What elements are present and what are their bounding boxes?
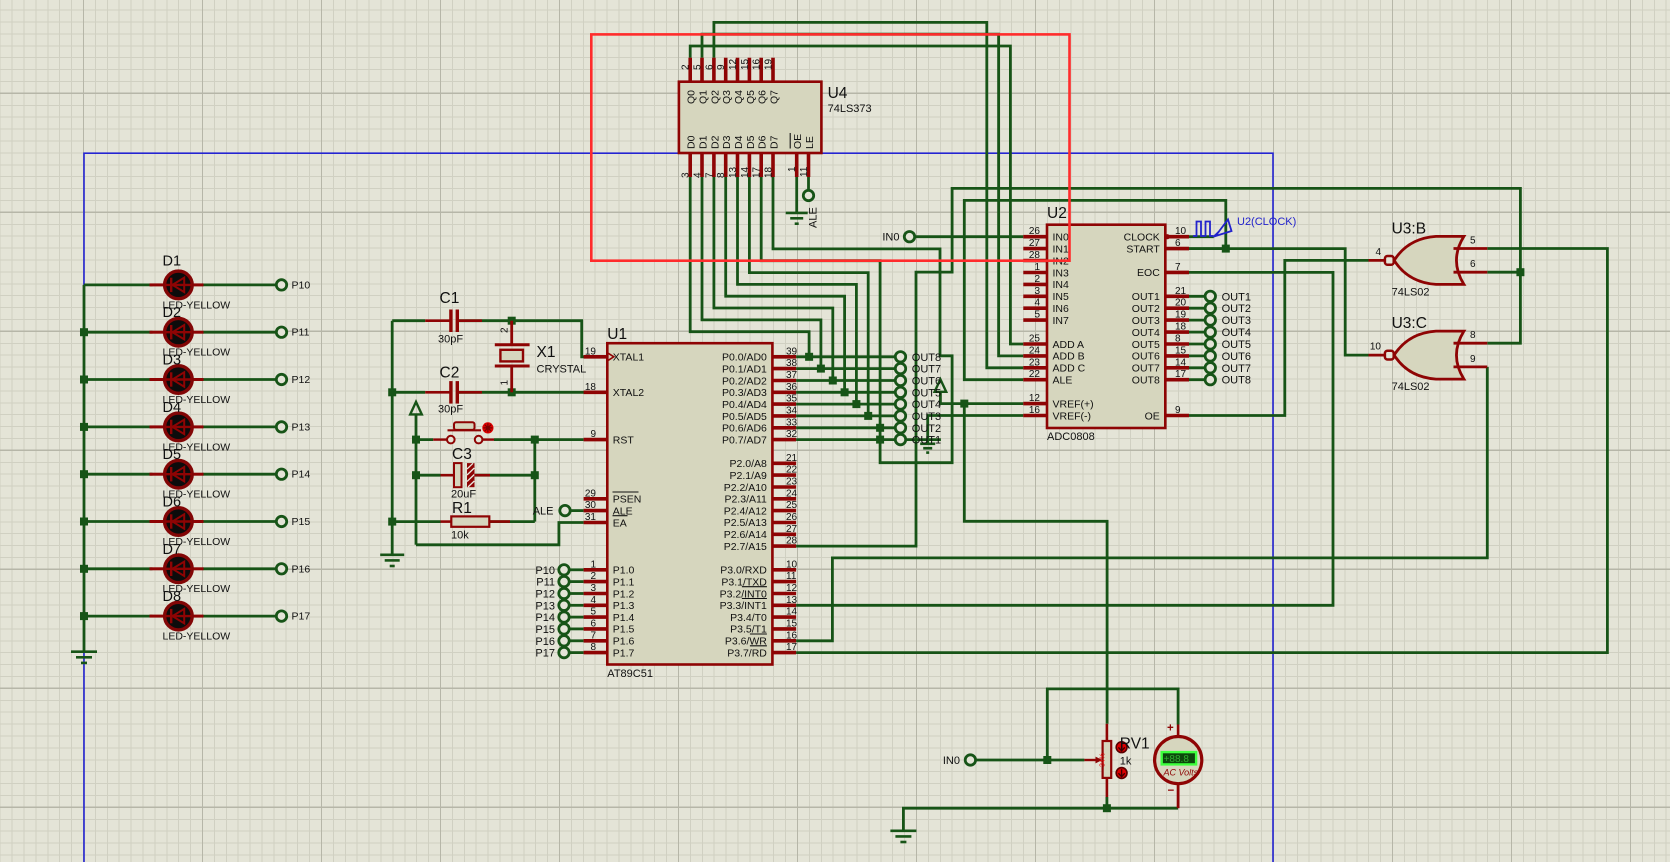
wire LED D7 left wire — [84, 567, 153, 570]
node ALE near U1 terminal — [560, 505, 570, 515]
pin 21 U2 OUT1 stub — [1165, 294, 1189, 298]
pin 27 U2 IN1 stub — [1023, 247, 1047, 251]
node P10 near U1 terminal — [559, 565, 569, 575]
capacitor C3 (20uF electrolytic) — [441, 463, 491, 487]
svg-text:23: 23 — [1029, 357, 1041, 368]
pin 13 U4 D4 stub — [736, 153, 740, 177]
pin 10 U3:C output stub — [1369, 354, 1385, 357]
svg-text:P2.0/A8: P2.0/A8 — [730, 458, 768, 470]
wire R1 left — [392, 520, 440, 523]
svg-text:+88.8: +88.8 — [1164, 754, 1190, 765]
LED D8 (LED-YELLOW) — [150, 602, 204, 630]
wire P3.7/RD to U3:B pin5 — [796, 249, 1607, 653]
pin 12 U1 P3.2/INT0 stub — [772, 592, 796, 596]
svg-text:P0.7/AD7: P0.7/AD7 — [722, 434, 767, 446]
svg-text:2: 2 — [500, 327, 511, 333]
svg-text:OUT7: OUT7 — [1132, 363, 1160, 375]
svg-text:P0.2/AD2: P0.2/AD2 — [722, 375, 767, 387]
wire LED D3 to terminal P12 — [203, 378, 278, 381]
svg-text:D6: D6 — [757, 135, 769, 149]
svg-text:P2.5/A13: P2.5/A13 — [724, 517, 767, 529]
svg-text:+: + — [1167, 723, 1174, 735]
svg-text:P12: P12 — [292, 374, 311, 386]
svg-text:8: 8 — [1470, 330, 1476, 341]
junction LED bus row D7 — [80, 565, 88, 573]
pin 10 U1 P3.0/RXD stub — [772, 568, 796, 572]
svg-text:AT89C51: AT89C51 — [607, 668, 653, 680]
junction D0 join P0.0 — [805, 353, 813, 361]
svg-text:C3: C3 — [452, 446, 472, 463]
wire LED cathode bus vertical — [83, 285, 86, 652]
wire U2 OUT2 to terminal — [1189, 307, 1205, 310]
svg-text:−: − — [1168, 785, 1175, 797]
junction LED bus row D8 — [80, 612, 88, 620]
wire CLOCK pin to probe — [1189, 235, 1214, 238]
svg-text:2: 2 — [681, 64, 692, 70]
svg-text:OUT8: OUT8 — [1132, 375, 1160, 387]
svg-text:D0: D0 — [686, 135, 698, 149]
svg-text:28: 28 — [1029, 250, 1041, 261]
red selection rectangle — [591, 34, 1069, 260]
svg-text:3: 3 — [681, 172, 692, 178]
blue border rectangle — [84, 153, 1273, 862]
wire R1 right — [489, 520, 535, 523]
NOR gate U3:C (74LS02) body — [1394, 331, 1464, 379]
svg-text:20uF: 20uF — [451, 489, 476, 501]
svg-text:17: 17 — [786, 642, 798, 653]
pin 5 U2 IN7 stub — [1023, 318, 1047, 322]
svg-text:OUT3: OUT3 — [1132, 315, 1160, 327]
svg-text:3: 3 — [590, 583, 596, 594]
svg-text:P14: P14 — [535, 612, 555, 624]
wire to U3:B pin 6 — [1487, 271, 1520, 274]
node OUT1 near U1 terminal — [895, 434, 905, 444]
svg-text:32: 32 — [786, 429, 798, 440]
capacitor C1 — [425, 310, 482, 333]
node OUT8 near U1 terminal — [895, 352, 905, 362]
pin 15 U1 P3.5/T1 stub — [772, 627, 796, 631]
svg-text:26: 26 — [1029, 226, 1041, 237]
pin 24 U1 P2.3/A11 stub — [772, 497, 796, 501]
pin 15 U4 Q5 stub — [748, 58, 752, 82]
wire RST node vertical — [533, 440, 536, 522]
svg-text:18: 18 — [1175, 322, 1187, 333]
svg-text:U4: U4 — [828, 85, 848, 102]
svg-text:22: 22 — [786, 465, 798, 476]
pin 17 U1 P3.7/RD stub — [772, 651, 796, 655]
pin 8 U4 D3 stub — [724, 153, 728, 177]
svg-text:2: 2 — [590, 571, 596, 582]
svg-text:24: 24 — [1029, 345, 1041, 356]
wire U4 Q0 to ADD A — [690, 46, 1023, 344]
svg-text:6: 6 — [590, 618, 596, 629]
svg-text:U3:B: U3:B — [1392, 220, 1426, 237]
svg-text:ADD B: ADD B — [1053, 351, 1085, 363]
svg-text:X1: X1 — [537, 344, 556, 361]
svg-text:38: 38 — [786, 358, 798, 369]
node OUT4 near U2 terminal — [1205, 327, 1215, 337]
svg-text:OUT1: OUT1 — [1132, 291, 1160, 303]
pin 28 U2 IN2 stub — [1023, 259, 1047, 263]
svg-text:74LS373: 74LS373 — [828, 103, 872, 115]
svg-text:15: 15 — [1175, 345, 1187, 356]
svg-text:IN1: IN1 — [1053, 243, 1070, 255]
svg-text:30pF: 30pF — [438, 333, 463, 345]
junction C3 right node — [531, 471, 539, 479]
pin 29 U1 PSEN stub — [584, 497, 608, 501]
ground G2 crystal rail — [380, 555, 404, 566]
svg-text:33: 33 — [786, 417, 798, 428]
svg-text:P0.4/AD4: P0.4/AD4 — [722, 399, 767, 411]
pin 7 U2 EOC stub — [1165, 271, 1189, 275]
wire START to U3:C output — [1189, 249, 1369, 356]
node P14 at LED terminal — [276, 469, 286, 479]
wire LED D6 left wire — [84, 520, 153, 523]
svg-text:8: 8 — [590, 642, 596, 653]
svg-text:19: 19 — [764, 58, 775, 70]
svg-text:7: 7 — [590, 630, 596, 641]
junction VCC-C3 — [412, 471, 420, 479]
pin 28 U1 P2.7/A15 stub — [772, 544, 796, 548]
svg-text:IN5: IN5 — [1053, 291, 1070, 303]
svg-text:P16: P16 — [535, 636, 555, 648]
wire LED D5 to terminal P14 — [203, 473, 278, 476]
node OUT6 near U1 terminal — [895, 375, 905, 385]
pin 33 U1 P0.6/AD6 stub — [772, 426, 796, 430]
wire U2 OUT3 to terminal — [1189, 319, 1205, 322]
svg-text:OUT5: OUT5 — [1222, 339, 1251, 351]
svg-text:OUT3: OUT3 — [912, 411, 941, 423]
wire P2.7 net to U3 pins 6/8 — [796, 188, 1520, 546]
svg-text:74LS02: 74LS02 — [1392, 381, 1430, 393]
pin 22 U2 ALE stub — [1023, 378, 1047, 382]
junction D7 join P0.7 — [876, 436, 884, 444]
svg-text:24: 24 — [786, 488, 798, 499]
svg-text:1: 1 — [1034, 262, 1040, 273]
svg-text:27: 27 — [1029, 238, 1041, 249]
svg-text:P3.0/RXD: P3.0/RXD — [720, 565, 767, 577]
svg-text:IN0: IN0 — [882, 232, 899, 244]
wire IN0 terminal to U2 pin26 — [915, 235, 1024, 238]
pin 25 U2 ADD A stub — [1023, 342, 1047, 346]
wire C1 to XTAL1 — [459, 321, 608, 357]
pin 8 U2 OUT5 stub — [1165, 342, 1189, 346]
pin 23 U1 P2.2/A10 stub — [772, 485, 796, 489]
svg-text:D5: D5 — [745, 135, 757, 149]
wire LED D4 to terminal P13 — [203, 425, 278, 428]
pin 27 U1 P2.6/A14 stub — [772, 532, 796, 536]
svg-text:IN0: IN0 — [1053, 232, 1070, 244]
junction rail junction — [1103, 804, 1111, 812]
svg-text:7: 7 — [1175, 262, 1181, 273]
svg-text:Q4: Q4 — [733, 90, 745, 104]
svg-text:9: 9 — [590, 429, 596, 440]
pin 5 U1 P1.4 stub — [584, 615, 608, 619]
node OUT7 near U1 terminal — [895, 363, 905, 373]
svg-text:8: 8 — [1175, 334, 1181, 345]
svg-text:P15: P15 — [292, 516, 311, 528]
svg-text:OUT5: OUT5 — [912, 387, 941, 399]
pin 22 U1 P2.1/A9 stub — [772, 473, 796, 477]
svg-text:PSEN: PSEN — [613, 494, 642, 506]
svg-text:P1.2: P1.2 — [613, 588, 635, 600]
junction D1 join P0.1 — [817, 365, 825, 373]
svg-text:16: 16 — [786, 630, 798, 641]
svg-text:AC Volts: AC Volts — [1163, 768, 1199, 778]
pin 34 U1 P0.5/AD5 stub — [772, 414, 796, 418]
svg-text:P10: P10 — [535, 565, 555, 577]
svg-text:IN0: IN0 — [943, 755, 960, 767]
node OUT8 near U2 terminal — [1205, 375, 1215, 385]
svg-text:P1.6: P1.6 — [613, 636, 635, 648]
wire P3.6/WR to U3:C pin9 — [796, 367, 1487, 641]
pin 6 U2 START stub — [1165, 247, 1189, 251]
svg-text:VREF(-): VREF(-) — [1053, 410, 1092, 422]
pin 24 U2 ADD B stub — [1023, 354, 1047, 358]
ground G1 LED bus — [71, 652, 97, 663]
wire U4 D4 to P0.4 — [738, 177, 857, 404]
junction D6 join P0.6 — [876, 424, 884, 432]
node IN0 near RV1 terminal — [965, 755, 975, 765]
svg-text:P3.3/INT1: P3.3/INT1 — [720, 600, 767, 612]
pin 13 U1 P3.3/INT1 stub — [772, 603, 796, 607]
svg-text:74LS02: 74LS02 — [1392, 286, 1430, 298]
LED D4 (LED-YELLOW) — [150, 413, 204, 441]
wire RV1 bottom to ground rail — [903, 797, 1107, 831]
svg-text:P10: P10 — [292, 279, 311, 291]
svg-text:XTAL2: XTAL2 — [613, 387, 644, 399]
XTAL1 arrow — [608, 353, 614, 360]
wire VREF- to ground — [928, 416, 1024, 444]
svg-text:CRYSTAL: CRYSTAL — [537, 364, 587, 376]
pin 17 U4 D6 stub — [759, 153, 763, 177]
wire U4 D5 to P0.5 — [749, 177, 868, 416]
clock probe arrow — [1216, 220, 1232, 237]
wire ground rail left of crystal — [391, 321, 394, 555]
wire P0.7 to OUT1 terminal — [796, 438, 896, 441]
wire C3 left — [416, 474, 441, 477]
svg-text:14: 14 — [786, 607, 798, 618]
pin 3 U1 P1.2 stub — [584, 592, 608, 596]
wire P13 terminal to stub — [569, 604, 584, 607]
overline INT1 — [742, 598, 767, 600]
pin 35 U1 P0.4/AD4 stub — [772, 402, 796, 406]
pin 7 U4 D2 stub — [712, 153, 716, 177]
svg-text:19: 19 — [1175, 310, 1187, 321]
pin 32 U1 P0.7/AD7 stub — [772, 438, 796, 442]
junction D2 join P0.2 — [829, 377, 837, 385]
svg-text:30pF: 30pF — [438, 403, 463, 415]
svg-text:Q2: Q2 — [709, 90, 721, 104]
svg-text:CLOCK: CLOCK — [1124, 232, 1160, 244]
wire P0.5 to OUT3 terminal — [796, 414, 896, 417]
pin 21 U1 P2.0/A8 stub — [772, 461, 796, 465]
wire P0.0 to OUT8 terminal — [796, 355, 896, 358]
svg-text:P16: P16 — [292, 563, 311, 575]
pin 11 U1 P3.1/TXD stub — [772, 580, 796, 584]
svg-text:OUT8: OUT8 — [1222, 375, 1251, 387]
node P17 near U1 terminal — [559, 647, 569, 657]
svg-text:XTAL1: XTAL1 — [613, 352, 644, 364]
wire LED D2 to terminal P11 — [203, 331, 278, 334]
pin 16 U2 VREF(-) stub — [1023, 414, 1047, 418]
pin 4 U4 D1 stub — [700, 153, 704, 177]
svg-text:U2(CLOCK): U2(CLOCK) — [1237, 216, 1296, 228]
pin 20 U2 OUT2 stub — [1165, 306, 1189, 310]
pin 39 U1 P0.0/AD0 stub — [772, 355, 796, 359]
wire LED D7 to terminal P16 — [203, 567, 278, 570]
svg-text:P1.0: P1.0 — [613, 565, 635, 577]
junction VCC branch — [960, 400, 968, 408]
wire C1 left — [392, 319, 425, 322]
svg-text:EOC: EOC — [1137, 267, 1160, 279]
wire LED D5 left wire — [84, 473, 153, 476]
svg-text:P0.5/AD5: P0.5/AD5 — [722, 411, 767, 423]
bubble U3:C output — [1385, 351, 1394, 360]
svg-text:1: 1 — [787, 166, 798, 172]
svg-text:LE: LE — [804, 136, 816, 149]
svg-text:OUT5: OUT5 — [1132, 339, 1160, 351]
svg-text:10: 10 — [1370, 342, 1382, 353]
svg-text:RV1: RV1 — [1120, 735, 1150, 752]
pin 26 U1 P2.5/A13 stub — [772, 521, 796, 525]
pin 14 U2 OUT7 stub — [1165, 366, 1189, 370]
wire P10 terminal to stub — [569, 568, 584, 571]
svg-text:25: 25 — [786, 500, 798, 511]
svg-text:OUT2: OUT2 — [912, 423, 941, 435]
pin 15 U2 OUT6 stub — [1165, 354, 1189, 358]
wire P17 terminal to stub — [569, 651, 584, 654]
pin 8 U3:C input stub — [1454, 342, 1488, 345]
wire LED D6 to terminal P15 — [203, 520, 278, 523]
svg-text:OUT1: OUT1 — [912, 435, 941, 447]
svg-text:28: 28 — [786, 536, 798, 547]
svg-text:P17: P17 — [292, 611, 311, 623]
chip U4 74LS373 body — [679, 82, 822, 153]
svg-text:17: 17 — [1175, 369, 1187, 380]
wire U2 OUT7 to terminal — [1189, 366, 1205, 369]
svg-text:P14: P14 — [292, 469, 311, 481]
svg-text:35: 35 — [786, 394, 798, 405]
svg-text:2: 2 — [1034, 274, 1040, 285]
node OUT6 near U2 terminal — [1205, 351, 1215, 361]
wire VCC to VREF+ — [940, 392, 1023, 404]
svg-text:15: 15 — [740, 58, 751, 70]
wire VCC to RV1 top — [964, 404, 1107, 724]
junction D5 join P0.5 — [864, 412, 872, 420]
wire P16 terminal to stub — [569, 639, 584, 642]
svg-text:Q5: Q5 — [745, 90, 757, 104]
svg-text:9: 9 — [716, 64, 727, 70]
wire U2 OE to U3:B output — [1189, 260, 1369, 415]
overline RD — [750, 645, 767, 647]
svg-text:P3.4/T0: P3.4/T0 — [730, 612, 767, 624]
pin 2 U2 IN4 stub — [1023, 283, 1047, 287]
node P13 near U1 terminal — [559, 600, 569, 610]
svg-text:LED-YELLOW: LED-YELLOW — [163, 631, 231, 643]
wire C2 left — [392, 391, 425, 394]
svg-text:IN3: IN3 — [1053, 267, 1070, 279]
svg-text:P0.6/AD6: P0.6/AD6 — [722, 423, 767, 435]
svg-text:P1.7: P1.7 — [613, 647, 635, 659]
chip U2 ADC0808 body — [1047, 225, 1165, 428]
pin 4 U1 P1.3 stub — [584, 603, 608, 607]
pin 16 U1 P3.6/WR stub — [772, 639, 796, 643]
pin 31 U1 EA stub — [584, 521, 608, 525]
svg-text:1: 1 — [500, 380, 511, 386]
node OUT2 near U1 terminal — [895, 423, 905, 433]
junction LED bus row D2 — [80, 328, 88, 336]
svg-text:C1: C1 — [440, 290, 460, 307]
node ALE near U4 terminal — [803, 190, 813, 200]
wire U2 OUT4 to terminal — [1189, 331, 1205, 334]
svg-text:14: 14 — [740, 166, 751, 178]
wire P12 terminal to stub — [569, 592, 584, 595]
pin 18 U4 D7 stub — [771, 153, 775, 177]
pin 4 U2 IN6 stub — [1023, 306, 1047, 310]
overline WR — [750, 633, 767, 635]
pin 8 U1 P1.7 stub — [584, 651, 608, 655]
svg-text:26: 26 — [786, 512, 798, 523]
svg-text:P2.4/A12: P2.4/A12 — [724, 505, 767, 517]
svg-text:4: 4 — [693, 172, 704, 178]
junction START junction — [1222, 245, 1230, 253]
wire U4 D1 to P0.1 — [702, 177, 821, 369]
pin 5 U4 Q1 stub — [700, 58, 704, 82]
junction X1 top — [508, 317, 516, 325]
wire P14 terminal to stub — [569, 616, 584, 619]
svg-text:Q6: Q6 — [757, 90, 769, 104]
svg-text:4: 4 — [1375, 247, 1381, 258]
wire EA to VCC — [416, 523, 584, 545]
svg-text:OUT4: OUT4 — [1132, 327, 1160, 339]
overline EA — [613, 515, 628, 517]
node OUT3 near U2 terminal — [1205, 315, 1215, 325]
wire P0.2 to OUT6 terminal — [796, 379, 896, 382]
chip U1 AT89C51 body — [607, 343, 772, 664]
wire U2 OUT5 to terminal — [1189, 343, 1205, 346]
pin 11 U4 LE stub — [807, 153, 811, 177]
svg-text:OE: OE — [1145, 410, 1160, 422]
wire U4 D2 to P0.2 — [714, 177, 833, 381]
pin 2 U1 P1.1 stub — [584, 580, 608, 584]
pin 37 U1 P0.2/AD2 stub — [772, 379, 796, 383]
svg-text:21: 21 — [1175, 286, 1187, 297]
svg-text:OE: OE — [792, 134, 804, 149]
node P11 near U1 terminal — [559, 576, 569, 586]
svg-text:16: 16 — [1029, 405, 1041, 416]
overline INT0 — [742, 586, 767, 588]
svg-text:10: 10 — [1175, 226, 1187, 237]
svg-text:12: 12 — [786, 583, 798, 594]
svg-text:5: 5 — [590, 607, 596, 618]
svg-text:D5: D5 — [163, 447, 182, 463]
wire P0.3 to OUT5 terminal — [796, 391, 896, 394]
node P16 at LED terminal — [276, 564, 286, 574]
svg-text:11: 11 — [799, 166, 810, 177]
svg-text:U3:C: U3:C — [1392, 315, 1427, 332]
svg-text:6: 6 — [1175, 238, 1181, 249]
junction LED bus row D4 — [80, 423, 88, 431]
pin 4 U3:B output stub — [1369, 259, 1385, 262]
svg-text:6: 6 — [1470, 259, 1476, 270]
svg-text:ALE: ALE — [1053, 375, 1073, 387]
svg-text:31: 31 — [585, 512, 597, 523]
pin 10 U2 CLOCK stub — [1165, 235, 1189, 239]
svg-text:4: 4 — [590, 595, 596, 606]
svg-text:P2.6/A14: P2.6/A14 — [724, 529, 767, 541]
node P12 near U1 terminal — [559, 588, 569, 598]
